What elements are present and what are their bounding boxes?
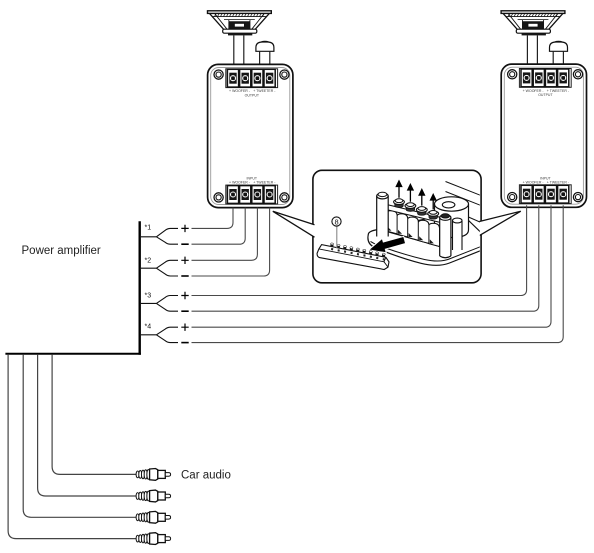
wire pair 4 split	[141, 327, 178, 342]
screw cap 2	[405, 203, 416, 209]
screw cap 3	[416, 207, 427, 213]
arch housing 3	[407, 217, 418, 240]
circled 8	[332, 217, 341, 226]
RCA plug 4	[136, 533, 171, 545]
screw collar 4	[429, 214, 437, 219]
wire -4 to right crossover input 4	[192, 205, 564, 342]
pull-up arrow 2	[408, 184, 414, 202]
connector strip (item 8)	[317, 243, 389, 270]
wire pair 2 split	[141, 260, 178, 276]
output pair 4	[141, 205, 563, 342]
right tall post	[440, 214, 451, 258]
black removal arrow	[369, 236, 406, 252]
svg-text:*3: *3	[145, 293, 152, 300]
screw collar 1	[395, 202, 403, 207]
background plate diagonals	[446, 182, 482, 206]
left tall post	[377, 192, 389, 236]
output pair 3	[141, 205, 539, 311]
wire tweeter-right legs	[553, 51, 563, 64]
RCA cable 3	[23, 355, 136, 518]
screw cap 1	[394, 199, 405, 205]
strip pins	[330, 243, 385, 261]
plus sign pair 3	[181, 292, 188, 299]
pull-up arrow 4	[430, 194, 436, 209]
wire woofer-left to crossover terminals	[234, 35, 244, 64]
RCA plug 3	[136, 511, 171, 523]
base plate thickness line	[371, 242, 482, 262]
svg-text:Car audio: Car audio	[181, 470, 231, 482]
minus sign pair 1	[181, 243, 188, 245]
arch housing 2	[396, 214, 407, 237]
wire +2 to left crossover input 3	[192, 208, 258, 261]
arch housing 1	[386, 211, 397, 234]
wire woofer-right to crossover terminals	[527, 35, 537, 64]
left tweeter	[256, 41, 274, 51]
base plate right edge	[465, 216, 481, 223]
wire pair 3 split	[141, 296, 178, 312]
big coil cylinder	[435, 197, 469, 238]
minus sign pair 4	[181, 342, 188, 344]
callout pointer tail left	[273, 211, 315, 237]
output pair 2	[141, 208, 270, 276]
screw cap 4	[428, 211, 439, 217]
right rear post	[453, 218, 463, 250]
screw collar 3	[418, 210, 426, 215]
arch housing 5	[428, 223, 439, 246]
plus sign pair 4	[181, 324, 188, 331]
svg-text:Power amplifier: Power amplifier	[22, 245, 101, 257]
wire +3 to right crossover input 1	[192, 205, 527, 295]
minus sign pair 3	[181, 310, 188, 312]
RCA plug 1	[136, 469, 171, 481]
output pair 1	[141, 208, 245, 245]
svg-text:*4: *4	[145, 324, 152, 331]
wire -3 to right crossover input 2	[192, 205, 539, 311]
terminal block base plate	[368, 213, 481, 265]
wire -2 to left crossover input 4	[192, 208, 270, 276]
right tweeter	[550, 41, 568, 51]
leader line for 8	[336, 226, 338, 248]
callout inset box	[313, 170, 481, 282]
plus sign pair 2	[181, 257, 188, 264]
svg-text:*2: *2	[145, 258, 152, 265]
screw collar 2	[406, 206, 414, 211]
left crossover network box	[208, 64, 293, 207]
RCA cable 4	[8, 355, 136, 539]
svg-text:*1: *1	[145, 225, 152, 232]
wire tweeter-left legs	[260, 51, 270, 64]
RCA cable 2	[38, 355, 136, 496]
wire +4 to right crossover input 3	[192, 205, 552, 327]
svg-text:8: 8	[335, 217, 339, 226]
wire pair 1 split	[141, 228, 178, 244]
RCA cable 1	[52, 355, 136, 475]
pull-up arrow 1	[396, 181, 402, 198]
inset 3D scene	[317, 181, 481, 270]
pull-up arrow 3	[419, 189, 425, 205]
right crossover network box	[501, 64, 586, 207]
left speaker (woofer)	[208, 11, 272, 36]
minus sign pair 2	[181, 275, 188, 277]
wire -1 to left crossover input 2	[192, 208, 246, 245]
wire +1 to left crossover input 1	[192, 208, 234, 229]
terminal rail	[384, 204, 451, 225]
RCA plug 2	[136, 490, 171, 502]
plus sign pair 1	[181, 225, 188, 232]
power amplifier box edge (bottom)	[5, 353, 141, 355]
arch foot shadows	[387, 227, 433, 244]
arch shadow line under feet	[384, 231, 440, 247]
power amplifier box edge (right)	[138, 221, 140, 354]
arch housing 4	[418, 220, 429, 243]
callout pointer tail right	[479, 211, 520, 235]
right speaker (woofer)	[501, 11, 565, 36]
